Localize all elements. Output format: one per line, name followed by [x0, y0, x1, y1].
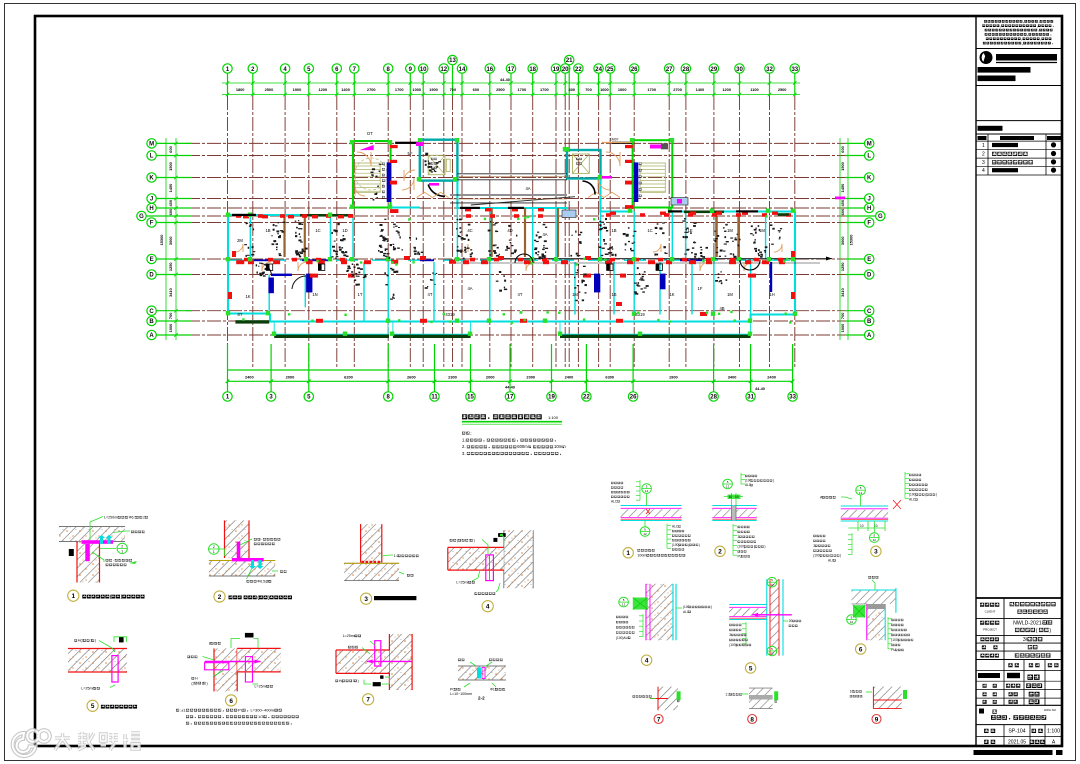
svg-text:A: A [149, 333, 154, 339]
svg-text:12: 12 [770, 652, 774, 656]
svg-text:1:100: 1:100 [548, 415, 559, 420]
svg-text:(100): (100) [891, 638, 898, 642]
svg-text:1K: 1K [669, 292, 674, 297]
detail 3 [344, 524, 419, 604]
revision table [987, 134, 989, 175]
svg-text:2500: 2500 [265, 87, 274, 92]
svg-text:1: 1 [626, 550, 630, 557]
svg-text:3: 3 [729, 633, 731, 637]
svg-text:7: 7 [657, 716, 661, 723]
svg-text:·: · [113, 559, 114, 563]
svg-text:G: G [878, 214, 883, 220]
interior walls [228, 208, 795, 322]
black door arcs on corridor [740, 260, 760, 270]
svg-text:31: 31 [747, 395, 754, 401]
svg-text:2300: 2300 [448, 375, 457, 380]
svg-text:1500: 1500 [840, 162, 845, 171]
svg-text:4319: 4319 [445, 312, 455, 317]
svg-text:10: 10 [735, 495, 739, 499]
svg-text:600: 600 [840, 146, 845, 153]
svg-text:,: , [1039, 20, 1040, 24]
vertical grid axis lines [228, 96, 795, 368]
svg-text:6300: 6300 [605, 375, 614, 380]
elevator right [567, 150, 601, 179]
svg-text:H: H [195, 677, 198, 681]
door swing arcs [235, 152, 782, 271]
svg-text:CLIENT: CLIENT [985, 610, 996, 614]
svg-text:1000: 1000 [412, 87, 421, 92]
svg-text:): ) [936, 493, 937, 497]
svg-text:2600: 2600 [407, 375, 416, 380]
svg-text:1:100: 1:100 [1047, 729, 1060, 735]
svg-text:(: ( [1036, 628, 1038, 634]
svg-text:2: 2 [213, 545, 215, 549]
svg-text:1700: 1700 [647, 87, 656, 92]
svg-text:4A: 4A [467, 286, 472, 291]
svg-text:400: 400 [569, 87, 576, 92]
svg-text:1200: 1200 [318, 87, 327, 92]
svg-text:12: 12 [873, 538, 877, 542]
svg-text:1K: 1K [245, 294, 250, 299]
svg-text:33: 33 [789, 395, 796, 401]
svg-text:3: 3 [813, 544, 815, 548]
svg-text:B: B [149, 319, 154, 325]
svg-text:25: 25 [607, 67, 614, 73]
black lintel top of core [395, 142, 420, 144]
svg-text:(100): (100) [738, 545, 745, 549]
svg-text:2.: 2. [462, 444, 466, 449]
svg-text:C: C [867, 309, 872, 315]
svg-text:9: 9 [875, 716, 879, 723]
svg-text:5: 5 [91, 703, 95, 710]
svg-text:1450: 1450 [840, 184, 845, 193]
svg-text:L=250mm: L=250mm [104, 516, 120, 520]
svg-text:26: 26 [631, 67, 638, 73]
bottom grid bubbles [223, 344, 798, 401]
right core extras [583, 181, 596, 195]
svg-text:1B: 1B [611, 228, 616, 233]
green junction markers [226, 138, 797, 336]
title block disclaimer text [982, 20, 1053, 46]
horizontal grid axis lines [186, 143, 845, 335]
svg-text:M: M [867, 142, 872, 148]
svg-text:2500: 2500 [496, 87, 505, 92]
svg-text:33: 33 [791, 67, 798, 73]
svg-text:4A: 4A [542, 232, 547, 237]
svg-text:1900: 1900 [293, 87, 302, 92]
svg-text:G: G [139, 214, 144, 220]
detail 4 [448, 530, 533, 612]
svg-text:2000: 2000 [526, 375, 535, 380]
svg-text:2-2: 2-2 [478, 696, 485, 701]
company name [996, 54, 1057, 61]
svg-text:L: L [150, 154, 154, 160]
svg-text:(100): (100) [909, 493, 916, 497]
svg-text:1H: 1H [769, 292, 774, 297]
svg-text:SP-104: SP-104 [1008, 729, 1025, 735]
svg-text:1000: 1000 [168, 324, 173, 333]
svg-text:B: B [867, 319, 872, 325]
svg-text:1M: 1M [727, 292, 733, 297]
wall detail R1 [611, 480, 700, 558]
svg-text:7: 7 [366, 697, 370, 704]
svg-text:1: 1 [982, 143, 985, 149]
svg-text:): ) [358, 679, 359, 683]
svg-text:3000: 3000 [840, 236, 845, 245]
svg-text:J: J [150, 197, 153, 203]
balcony slabs dark green [235, 211, 750, 339]
left dimension lines [166, 138, 178, 340]
notes body [462, 431, 566, 456]
svg-text:K: K [867, 176, 872, 182]
svg-text:1400: 1400 [696, 87, 705, 92]
svg-text:2700: 2700 [367, 87, 376, 92]
svg-text:1B: 1B [265, 228, 270, 233]
svg-text:1700: 1700 [540, 87, 549, 92]
svg-text:17: 17 [508, 67, 515, 73]
corridor section line [490, 258, 832, 260]
lower title block [976, 597, 1062, 599]
svg-text:F: F [150, 221, 154, 227]
svg-text:H(2: H(2 [78, 639, 84, 643]
stair label text [382, 163, 385, 166]
detail 1 [59, 516, 148, 602]
svg-text:2021.05: 2021.05 [1008, 740, 1026, 746]
svg-text:4D: 4D [507, 228, 512, 233]
svg-text:): ) [206, 681, 207, 685]
wall detail R3 [813, 472, 937, 563]
floor plan [226, 131, 845, 338]
black door arcs lower rooms [259, 263, 272, 276]
svg-text:1: 1 [121, 549, 123, 553]
wall detail R8 [725, 688, 778, 723]
svg-text:22: 22 [575, 67, 582, 73]
svg-text:(100): (100) [813, 554, 820, 558]
balcony rails cyan [274, 322, 750, 335]
svg-text:2M: 2M [237, 238, 243, 243]
closet partitions [285, 208, 739, 257]
svg-text:29: 29 [711, 67, 718, 73]
bar code strip below title block [974, 750, 1053, 755]
svg-text:DWG NO: DWG NO [1044, 708, 1057, 712]
svg-text:20: 20 [789, 619, 793, 623]
svg-text:450: 450 [168, 200, 173, 207]
detail 5 [68, 637, 137, 712]
svg-text:700: 700 [168, 313, 173, 320]
svg-text:6200: 6200 [344, 375, 353, 380]
svg-text:5F: 5F [408, 151, 413, 156]
svg-text:L=300~400mm: L=300~400mm [250, 708, 278, 713]
svg-text:): ) [711, 605, 712, 609]
svg-text:1500: 1500 [168, 162, 173, 171]
svg-text:10: 10 [860, 524, 864, 528]
svg-text:4A: 4A [525, 186, 530, 191]
svg-text:3410: 3410 [840, 288, 845, 297]
svg-text:,: , [1000, 24, 1001, 28]
svg-text:H: H [149, 206, 153, 212]
svg-text:19: 19 [553, 67, 560, 73]
left grid bubbles [137, 139, 192, 340]
svg-text:600: 600 [840, 209, 845, 216]
svg-text:8: 8 [209, 642, 211, 646]
svg-text:600: 600 [168, 209, 173, 216]
dark green lintel right wing [778, 213, 789, 216]
svg-text:450: 450 [840, 200, 845, 207]
svg-text:): ) [1049, 628, 1051, 634]
svg-text:12: 12 [726, 485, 730, 489]
svg-text:,: , [1038, 28, 1039, 32]
svg-text:): ) [699, 543, 700, 547]
right dimension lines [840, 138, 848, 340]
svg-text:3400: 3400 [728, 375, 737, 380]
svg-text:,: , [1040, 37, 1041, 41]
svg-text:J: J [868, 197, 871, 203]
svg-text:E: E [867, 257, 871, 263]
svg-text:700: 700 [585, 87, 592, 92]
company logo [980, 51, 993, 64]
svg-text:12: 12 [859, 491, 863, 495]
svg-text:1M07: 1M07 [610, 138, 619, 142]
svg-text:·: · [261, 538, 262, 542]
svg-text:): ) [840, 554, 841, 558]
svg-text:20: 20 [562, 67, 569, 73]
svg-text:2400: 2400 [767, 375, 776, 380]
svg-text:15300: 15300 [159, 235, 164, 246]
svg-text:600: 600 [168, 146, 173, 153]
wall detail R9 [850, 687, 907, 724]
svg-text:26: 26 [630, 395, 637, 401]
svg-text:15300: 15300 [849, 235, 854, 246]
svg-text:ALC: ALC [672, 525, 679, 529]
svg-text:1D: 1D [342, 228, 347, 233]
svg-text:24: 24 [595, 67, 602, 73]
elevator left [420, 140, 458, 181]
svg-text:Φ6.5: Φ6.5 [129, 516, 137, 520]
svg-text:1T: 1T [358, 292, 363, 297]
svg-text:600: 600 [473, 87, 480, 92]
svg-text:M: M [149, 142, 154, 148]
wall detail R4 [616, 584, 712, 666]
svg-text:1B: 1B [611, 292, 616, 297]
svg-text:2400: 2400 [565, 375, 574, 380]
svg-text:ALC: ALC [909, 498, 916, 502]
svg-text:32: 32 [766, 67, 773, 73]
svg-text:2700: 2700 [673, 87, 682, 92]
black window lintels [232, 207, 758, 216]
svg-text:H: H [867, 206, 871, 212]
svg-text:28: 28 [683, 67, 690, 73]
svg-text:1250: 1250 [840, 262, 845, 271]
svg-text:12: 12 [645, 489, 649, 493]
detail 2 [209, 520, 292, 602]
wall detail R7 [633, 687, 681, 724]
room labels [237, 131, 775, 317]
svg-text:4B: 4B [719, 306, 724, 311]
svg-text:2: 2 [982, 152, 985, 158]
svg-text:1450: 1450 [168, 184, 173, 193]
top dimension lines [222, 81, 800, 96]
svg-text:1C: 1C [647, 228, 652, 233]
svg-text:2: 2 [143, 516, 145, 520]
svg-text:1900: 1900 [429, 87, 438, 92]
svg-text:3: 3 [874, 549, 878, 556]
svg-text:15: 15 [467, 395, 474, 401]
svg-text:4: 4 [645, 658, 649, 665]
annotation specks [244, 153, 782, 302]
svg-text:3: 3 [364, 596, 368, 603]
detail 7 [335, 634, 412, 705]
svg-text:4T: 4T [518, 292, 523, 297]
svg-text:D: D [149, 273, 154, 279]
structural red blocks [228, 145, 795, 323]
svg-text:ALC: ALC [611, 499, 618, 503]
svg-text:PROJECT: PROJECT [983, 628, 997, 632]
svg-text:2: 2 [218, 594, 222, 601]
svg-text:2400: 2400 [245, 375, 254, 380]
svg-text:1700: 1700 [395, 87, 404, 92]
svg-text:12: 12 [643, 532, 647, 536]
svg-text:1100: 1100 [750, 87, 758, 92]
svg-text:4: 4 [486, 604, 490, 611]
svg-text:,: , [1023, 20, 1024, 24]
wall detail R5 [729, 577, 801, 673]
svg-text:2: 2 [121, 544, 123, 548]
svg-text:1900: 1900 [669, 375, 678, 380]
magenta lintels [416, 142, 845, 199]
svg-text:12: 12 [770, 583, 774, 587]
svg-text:1000: 1000 [618, 87, 627, 92]
watermark [13, 730, 140, 756]
svg-text:DT: DT [367, 131, 373, 136]
svg-text:44-40: 44-40 [755, 386, 765, 391]
black door arc below elevator [428, 185, 445, 197]
svg-text:A: A [867, 333, 872, 339]
right grid bubbles [845, 139, 885, 340]
svg-text:1C: 1C [315, 228, 320, 233]
svg-text:10: 10 [420, 67, 427, 73]
svg-text:1700: 1700 [518, 87, 527, 92]
svg-text:19: 19 [548, 395, 555, 401]
title block divider [975, 16, 977, 746]
svg-text:8T: 8T [238, 312, 243, 317]
svg-text:4319: 4319 [635, 312, 645, 317]
svg-text:700: 700 [450, 87, 457, 92]
svg-text:2: 2 [718, 549, 722, 556]
stair core left [353, 141, 391, 208]
svg-text:21: 21 [566, 58, 573, 64]
svg-text:44-40: 44-40 [500, 77, 510, 82]
svg-text::±1.: :±1. [180, 708, 187, 713]
svg-text:700: 700 [840, 313, 845, 320]
svg-text:): ) [773, 479, 774, 483]
svg-text:F: F [867, 221, 871, 227]
svg-text:1M: 1M [727, 228, 733, 233]
svg-text:6: 6 [859, 646, 863, 653]
stair core right [633, 140, 673, 207]
wall detail R2 [712, 473, 774, 558]
notes title [462, 414, 542, 419]
svg-text:28: 28 [710, 395, 717, 401]
svg-text:(100): (100) [672, 543, 679, 547]
svg-text:17: 17 [507, 395, 514, 401]
svg-text:10mm: 10mm [554, 444, 566, 449]
svg-text:(2: (2 [191, 681, 194, 685]
svg-text:3: 3 [738, 535, 740, 539]
svg-text:D: D [867, 273, 872, 279]
svg-text:C: C [149, 309, 154, 315]
svg-text:2000: 2000 [286, 375, 295, 380]
wall detail R6 [847, 576, 913, 654]
svg-text:,: , [1027, 33, 1028, 37]
left wing outer walls [228, 179, 795, 322]
svg-text:1/3: 1/3 [258, 714, 264, 719]
svg-text:2000: 2000 [486, 375, 495, 380]
svg-text:,: , [1022, 41, 1023, 45]
detail 2-2 [450, 659, 506, 701]
svg-text:4C: 4C [467, 228, 472, 233]
svg-text:3000: 3000 [168, 236, 173, 245]
svg-text:6: 6 [229, 698, 233, 705]
stair core left blue wall [387, 162, 392, 202]
svg-text:11: 11 [431, 395, 438, 401]
svg-text:1400: 1400 [341, 87, 350, 92]
svg-text:2500: 2500 [778, 87, 787, 92]
svg-text:): ) [764, 545, 765, 549]
svg-text:;: ; [470, 431, 471, 436]
svg-text:K: K [149, 176, 154, 182]
svg-text:12: 12 [622, 603, 626, 607]
svg-text:3: 3 [982, 160, 985, 166]
svg-text:5: 5 [749, 665, 753, 672]
svg-text:4: 4 [982, 168, 985, 174]
svg-text:30: 30 [736, 67, 743, 73]
svg-text:1N: 1N [312, 292, 317, 297]
svg-text:27: 27 [666, 67, 673, 73]
svg-text:600mm: 600mm [517, 444, 531, 449]
magenta sill [360, 145, 374, 150]
svg-text:4T: 4T [428, 292, 433, 297]
svg-text:1: 1 [213, 550, 215, 554]
svg-text:12: 12 [440, 67, 447, 73]
window bay pale blue [671, 198, 688, 206]
svg-text:1000: 1000 [840, 324, 845, 333]
svg-text:44-40: 44-40 [505, 385, 515, 390]
svg-text:(100): (100) [729, 643, 736, 647]
svg-text:1600: 1600 [600, 87, 609, 92]
svg-text:22: 22 [583, 395, 590, 401]
svg-text:1F: 1F [698, 286, 703, 291]
svg-text:1200: 1200 [722, 87, 731, 92]
svg-text:10: 10 [729, 495, 733, 499]
svg-text:): ) [95, 639, 96, 643]
svg-text:L: L [867, 154, 871, 160]
stair core right blue wall [634, 162, 639, 202]
svg-text:1800: 1800 [236, 87, 245, 92]
svg-text:3.: 3. [462, 451, 466, 456]
svg-text:L=10~100mm: L=10~100mm [450, 692, 472, 696]
window sills dark blue [254, 259, 773, 293]
detail 6 [176, 633, 299, 725]
svg-text:1M: 1M [759, 228, 765, 233]
svg-text:13: 13 [449, 58, 456, 64]
corridor slab lines [450, 174, 575, 205]
svg-text:1: 1 [72, 593, 76, 600]
svg-text:1250: 1250 [168, 262, 173, 271]
svg-text:1M: 1M [572, 292, 578, 297]
green tie marks [242, 215, 791, 324]
svg-text:E: E [150, 257, 154, 263]
svg-text:16: 16 [486, 67, 493, 73]
